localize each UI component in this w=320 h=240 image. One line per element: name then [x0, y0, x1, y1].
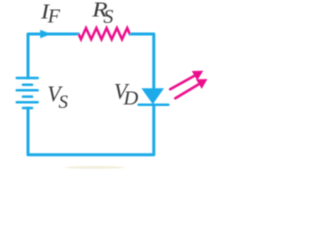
svg-text:S: S [59, 92, 69, 113]
svg-text:D: D [123, 88, 139, 110]
svg-text:S: S [103, 6, 113, 28]
svg-text:F: F [47, 6, 61, 28]
